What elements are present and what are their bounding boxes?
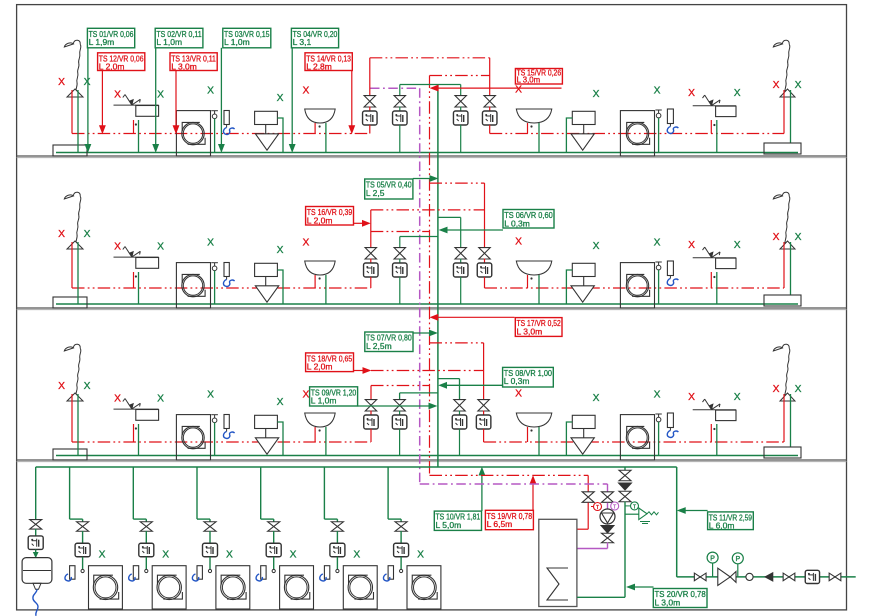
svg-text:X: X bbox=[688, 240, 695, 251]
svg-text:X: X bbox=[515, 389, 522, 400]
svg-text:L 2,5: L 2,5 bbox=[366, 188, 385, 198]
svg-text:X: X bbox=[688, 392, 695, 403]
svg-text:L 5,0m: L 5,0m bbox=[436, 520, 462, 530]
svg-text:L 6,0m: L 6,0m bbox=[709, 521, 735, 531]
svg-text:X: X bbox=[654, 390, 661, 401]
svg-text:X: X bbox=[84, 77, 91, 88]
svg-text:L 0,3m: L 0,3m bbox=[504, 218, 530, 228]
svg-text:X: X bbox=[688, 88, 695, 99]
svg-text:X: X bbox=[773, 384, 780, 395]
svg-text:L 2,0m: L 2,0m bbox=[307, 362, 333, 372]
svg-text:X: X bbox=[593, 393, 600, 404]
svg-text:T: T bbox=[613, 505, 616, 511]
svg-text:X: X bbox=[58, 381, 65, 392]
svg-text:X: X bbox=[734, 88, 741, 99]
svg-text:X: X bbox=[58, 77, 65, 88]
svg-text:L 3,0m: L 3,0m bbox=[517, 76, 541, 85]
svg-text:X: X bbox=[417, 550, 424, 561]
svg-text:X: X bbox=[654, 238, 661, 249]
svg-text:X: X bbox=[114, 90, 121, 101]
svg-text:L 1,0m: L 1,0m bbox=[224, 37, 250, 47]
svg-text:X: X bbox=[353, 550, 360, 561]
svg-text:X: X bbox=[207, 86, 214, 97]
svg-text:L 1,0m: L 1,0m bbox=[156, 37, 182, 47]
svg-text:X: X bbox=[84, 381, 91, 392]
svg-text:X: X bbox=[302, 238, 309, 249]
svg-text:L 3,1: L 3,1 bbox=[293, 37, 312, 47]
svg-text:X: X bbox=[58, 229, 65, 240]
svg-text:X: X bbox=[515, 237, 522, 248]
svg-text:X: X bbox=[162, 550, 169, 561]
svg-text:X: X bbox=[302, 86, 309, 97]
svg-text:T: T bbox=[633, 504, 636, 510]
svg-text:X: X bbox=[290, 550, 297, 561]
svg-text:X: X bbox=[207, 390, 214, 401]
svg-text:X: X bbox=[795, 384, 802, 395]
svg-text:L 2,5m: L 2,5m bbox=[366, 341, 392, 351]
svg-text:X: X bbox=[157, 90, 164, 101]
svg-text:X: X bbox=[734, 392, 741, 403]
svg-text:T: T bbox=[596, 505, 599, 511]
svg-text:X: X bbox=[84, 229, 91, 240]
svg-text:L 0,3m: L 0,3m bbox=[504, 376, 530, 386]
svg-text:L 1,0m: L 1,0m bbox=[311, 396, 337, 406]
svg-text:X: X bbox=[773, 80, 780, 91]
svg-text:L 3,0m: L 3,0m bbox=[171, 62, 197, 72]
svg-text:X: X bbox=[773, 232, 780, 243]
svg-text:X: X bbox=[277, 245, 284, 256]
svg-text:X: X bbox=[157, 242, 164, 253]
svg-text:P: P bbox=[710, 555, 715, 562]
svg-text:L 2,0m: L 2,0m bbox=[307, 215, 333, 225]
svg-text:X: X bbox=[114, 242, 121, 253]
svg-text:X: X bbox=[277, 93, 284, 104]
svg-text:X: X bbox=[302, 390, 309, 401]
svg-text:X: X bbox=[277, 397, 284, 408]
svg-text:X: X bbox=[734, 240, 741, 251]
svg-text:L 2,0m: L 2,0m bbox=[99, 62, 125, 72]
svg-text:P: P bbox=[735, 556, 740, 563]
svg-text:X: X bbox=[654, 86, 661, 97]
svg-text:X: X bbox=[226, 550, 233, 561]
svg-text:X: X bbox=[795, 80, 802, 91]
svg-text:X: X bbox=[99, 550, 106, 561]
svg-text:L 3,0m: L 3,0m bbox=[655, 597, 681, 607]
svg-text:X: X bbox=[207, 238, 214, 249]
svg-text:L 3,0m: L 3,0m bbox=[517, 326, 543, 336]
svg-text:L 6,5m: L 6,5m bbox=[487, 519, 513, 529]
svg-text:X: X bbox=[114, 394, 121, 405]
svg-text:L 2,8m: L 2,8m bbox=[306, 62, 332, 72]
svg-text:X: X bbox=[795, 232, 802, 243]
svg-text:X: X bbox=[157, 394, 164, 405]
svg-text:X: X bbox=[593, 89, 600, 100]
svg-text:X: X bbox=[593, 241, 600, 252]
svg-text:X: X bbox=[515, 85, 522, 96]
svg-text:L 1,9m: L 1,9m bbox=[89, 37, 115, 47]
